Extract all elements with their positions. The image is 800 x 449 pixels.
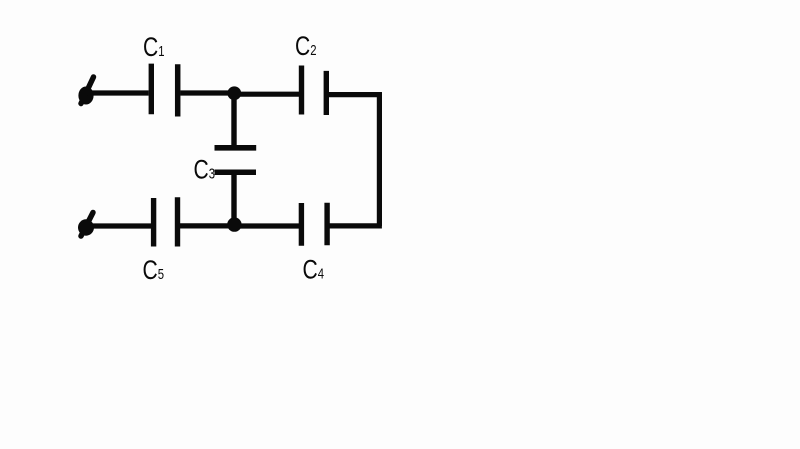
wire C1 to node A	[180, 90, 235, 95]
capacitor C5	[154, 197, 178, 246]
node A (top junction)	[227, 86, 241, 100]
terminal T1 (top-left input)	[78, 77, 93, 105]
capacitor C2	[302, 66, 327, 116]
wire C3 to node B	[231, 175, 236, 224]
label C5	[143, 256, 165, 286]
svg-text:C4: C4	[303, 255, 325, 285]
wire node A to C2	[233, 92, 299, 97]
label C3	[194, 155, 216, 185]
capacitor C1	[151, 64, 177, 117]
svg-text:C5: C5	[143, 256, 165, 286]
svg-text:C2: C2	[295, 32, 317, 62]
label C2	[295, 32, 317, 62]
terminal T2 (bottom-left input)	[78, 213, 94, 237]
capacitor C3	[215, 148, 257, 172]
label C4	[303, 255, 325, 285]
wire T1 to C1	[87, 90, 149, 95]
wire C4 to node B	[236, 223, 304, 228]
wire node A down to C3	[231, 91, 236, 146]
svg-text:C3: C3	[194, 155, 216, 185]
wire C2 to top-right corner	[329, 92, 382, 97]
svg-text:C1: C1	[143, 33, 165, 63]
wire node B to C5	[178, 223, 233, 228]
wire bottom-right corner to C4	[328, 223, 382, 228]
label C1	[143, 33, 165, 63]
node B (bottom junction)	[227, 217, 241, 231]
capacitor C4	[301, 203, 327, 246]
wire C5 to terminal T2	[87, 223, 152, 228]
wire right vertical	[377, 92, 382, 226]
